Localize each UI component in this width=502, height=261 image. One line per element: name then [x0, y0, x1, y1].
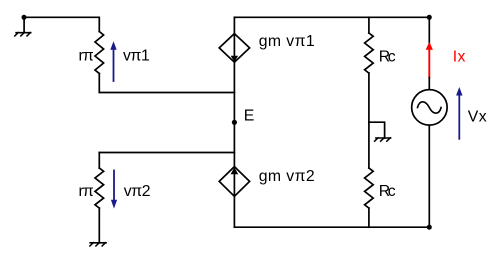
svg-text:E: E — [244, 108, 255, 125]
ground (top-left) — [15, 17, 31, 36]
svg-text:gm vπ1: gm vπ1 — [259, 33, 315, 50]
wire top rail — [234, 16, 429, 18]
node dot top-left — [22, 15, 27, 20]
ground (middle) — [375, 138, 391, 141]
wire above source circle — [428, 78, 430, 90]
wire central vertical: diamond1 bottom to diamond2 top (through E) — [233, 62, 235, 166]
node dot bottom-right — [427, 225, 432, 230]
wire rpi2 top vertical — [98, 153, 100, 169]
dependent source U2 gm vpi2 (diamond, arrow up) — [219, 167, 249, 197]
arrow vpi2 (blue, down) — [111, 171, 117, 209]
dependent source U1 gm vpi1 (diamond, arrow down) — [219, 34, 249, 63]
resistor Rc2 (zigzag) — [365, 168, 374, 208]
svg-text:vπ1: vπ1 — [123, 48, 150, 65]
svg-text:rπ: rπ — [79, 183, 94, 200]
source Vx (AC circle with sine) — [412, 90, 448, 126]
wire top-left horizontal from ground to rpi1 top — [24, 17, 99, 31]
svg-text:gm vπ2: gm vπ2 — [259, 168, 315, 185]
node E dot — [232, 120, 237, 125]
node dot top-right — [427, 15, 432, 20]
svg-text:Rc: Rc — [379, 48, 396, 65]
svg-text:vπ2: vπ2 — [124, 183, 151, 200]
resistor rpi1 (zigzag) — [95, 32, 104, 74]
arrow vpi1 (blue, up) — [110, 41, 116, 81]
resistor rpi2 (zigzag) — [95, 168, 104, 208]
svg-text:Vx: Vx — [468, 109, 487, 126]
wire Rc1 bottom to Rc2 top — [368, 73, 370, 168]
ground (bottom-left) — [90, 243, 106, 246]
svg-text:rπ: rπ — [79, 48, 94, 65]
svg-text:Ix: Ix — [453, 49, 466, 66]
arrow Ix (red, up) — [426, 42, 433, 78]
wire ground stub — [369, 122, 385, 138]
wire central vertical: top corner to diamond1 top — [233, 17, 235, 33]
arrow Vx (blue, up) — [456, 87, 462, 139]
resistor Rc1 (zigzag) — [365, 33, 374, 73]
wire Rc2 bottom to bottom rail — [368, 208, 370, 227]
wire rpi2 bottom to ground — [98, 208, 100, 243]
wire central vertical: diamond2 bottom to bottom rail — [233, 196, 235, 227]
wire lower-left horizontal from rpi2 top to central column — [99, 152, 234, 154]
wire right branch: rail to Rc1 — [368, 17, 370, 33]
svg-text:Rc: Rc — [379, 183, 396, 200]
wire bottom rail — [234, 226, 429, 228]
wire rpi1 bottom down and right to node E column — [99, 74, 234, 93]
wire below source circle to bottom rail — [428, 125, 430, 227]
wire top-right down to Ix arrow — [428, 17, 430, 44]
